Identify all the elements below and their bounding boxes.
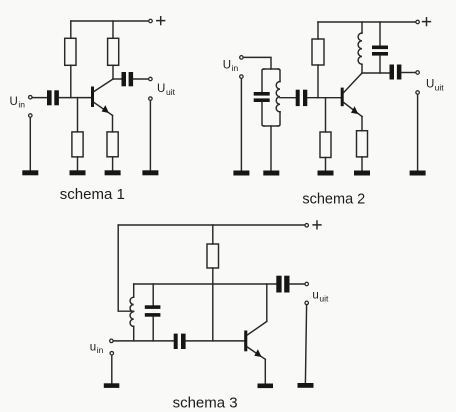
wire input terminal to C1 [33, 97, 48, 99]
wire C7 to base wire [152, 317, 154, 341]
label Uuit schema 1 [157, 83, 176, 97]
svg-text:u: u [312, 290, 318, 302]
label Uuit schema 2 [426, 79, 444, 93]
ground (schema 1 R4) [105, 170, 121, 175]
transistor Q2 collector lead [344, 73, 362, 93]
transistor Q3 emitter lead [247, 347, 265, 359]
svg-text:schema 3: schema 3 [173, 395, 238, 412]
wire R5 to base wire [317, 65, 319, 98]
wire rail to C4 [379, 22, 381, 46]
transistor Q1 base bar [91, 87, 94, 108]
wire output terminal to ground [149, 101, 151, 171]
svg-text:U: U [157, 83, 165, 95]
wire: supply rail schema 3 [118, 224, 304, 226]
capacitor C1 [47, 90, 59, 105]
wire L2 to collector node [361, 64, 363, 73]
ground (schema 3 emitter) [258, 384, 274, 389]
svg-text:U: U [10, 96, 18, 108]
wire rail to coil tap [118, 225, 134, 311]
wire C2 to output terminal [133, 78, 148, 80]
wire rail to R5 [317, 22, 319, 39]
terminal uuit schema 3 [305, 282, 309, 286]
transistor Q1 emitter lead [94, 103, 113, 116]
wire collector node horizontal schema 3 [134, 283, 277, 285]
transistor Q1 collector lead [94, 79, 113, 92]
wire: supply rail schema 1 [71, 20, 149, 22]
transistor Q2 emitter arrow [351, 106, 358, 114]
resistor R1 [65, 38, 76, 65]
svg-text:in: in [97, 345, 104, 355]
wire R4 to ground [112, 157, 114, 171]
svg-text:schema 1: schema 1 [60, 186, 125, 203]
resistor R8 [207, 244, 219, 268]
terminal Uin lower schema 2 [240, 75, 244, 79]
ground (schema 1 input) [22, 170, 38, 175]
wire lower input terminal to ground [29, 118, 31, 171]
inductor L2 [358, 33, 362, 64]
svg-text:schema 2: schema 2 [302, 192, 365, 208]
terminal Uin schema 2 [240, 56, 244, 60]
wire base node to R6 [325, 98, 327, 132]
wire lower input terminal to ground [240, 79, 242, 171]
svg-text:uit: uit [166, 87, 176, 97]
tank outline top schema 2 [264, 68, 278, 70]
transistor Q3 emitter arrow [254, 349, 261, 357]
ground (schema 3 input) [104, 383, 120, 388]
resistor R3 [72, 132, 83, 157]
wire C6 to output terminal [401, 72, 415, 74]
terminal Uuit lower schema 1 [149, 97, 153, 101]
ground (schema 2 R7) [354, 171, 370, 176]
terminal uuit lower schema 3 [305, 301, 309, 305]
transistor Q2 base bar [341, 88, 344, 107]
wire input terminal to tank [244, 57, 272, 69]
svg-text:in: in [18, 100, 25, 110]
wire emitter to R7 [361, 117, 363, 131]
ground (schema 1 R3) [70, 170, 86, 175]
svg-text:uit: uit [435, 83, 445, 93]
capacitor C9 [276, 276, 289, 293]
wire tank tap to C5 [280, 97, 296, 99]
wire emitter to ground [264, 359, 266, 383]
resistor R7 [357, 131, 368, 157]
wire collector node horizontal [362, 72, 390, 74]
capacitor C5 [296, 90, 308, 106]
wire C4 to collector node [379, 56, 381, 73]
wire tank bottom to ground [270, 126, 272, 171]
terminal Uuit lower schema 2 [416, 91, 420, 95]
inductor L1 top leg [278, 69, 280, 82]
svg-text:U: U [426, 79, 434, 91]
label uuit schema 3 [312, 290, 329, 304]
inductor L3 [130, 297, 134, 326]
wire L3 to base wire [133, 326, 135, 341]
label Uin schema 2 [223, 59, 239, 73]
wire R2 top [112, 21, 114, 38]
wire rail to R8 [212, 225, 214, 244]
capacitor C6 [390, 65, 402, 80]
terminal uin schema 3 [110, 339, 114, 343]
terminal uin lower schema 3 [110, 351, 114, 355]
terminal Uuit schema 1 [149, 77, 153, 81]
label + schema 3 [313, 221, 321, 229]
wire: supply rail schema 2 [318, 21, 416, 23]
wire C5 to base [307, 97, 340, 99]
terminal + schema 1 [149, 19, 153, 23]
inductor L1 coil [276, 82, 280, 112]
terminal + schema 2 [416, 20, 420, 24]
wire R7 to ground [361, 157, 363, 171]
terminal + schema 3 [305, 224, 309, 228]
wire R6 to ground [325, 158, 327, 171]
capacitor C4 plates [372, 46, 388, 56]
svg-text:u: u [90, 341, 96, 353]
wire lower output terminal to ground [417, 95, 419, 171]
resistor R5 [312, 39, 324, 65]
label Uin schema 1 [10, 96, 26, 110]
wire R2 to collector node [112, 65, 114, 79]
wire emitter to R4 [112, 115, 114, 131]
label uin schema 3 [90, 341, 104, 355]
capacitor C7 plates [145, 305, 161, 316]
ground (schema 3 output) [298, 383, 314, 388]
ground (schema 1 output) [142, 170, 158, 175]
wire rail to L2 [361, 22, 363, 33]
wire input terminal along base [114, 340, 174, 342]
terminal Uin lower schema 1 [29, 114, 33, 118]
svg-text:U: U [223, 59, 231, 71]
transistor Q3 collector lead [247, 321, 266, 335]
wire lower input terminal to ground [111, 355, 113, 383]
tank outline bottom schema 2 [264, 125, 278, 127]
resistor R2 [108, 38, 119, 65]
inductor L1 bottom leg [278, 112, 280, 126]
wire collector node to C7 [152, 284, 154, 305]
wire collector node to C2 [113, 78, 122, 80]
wire lower output terminal to ground [305, 305, 306, 383]
label + schema 1 [157, 17, 165, 25]
terminal Uuit schema 2 [416, 71, 420, 75]
svg-text:uit: uit [319, 294, 329, 304]
wire R8 to base wire [212, 268, 214, 341]
wire R1 to base node [70, 65, 72, 97]
wire R3 to ground [77, 157, 79, 170]
wire collector to node schema 3 [266, 284, 268, 321]
wire base node to R3 [77, 98, 79, 132]
transistor Q1 emitter arrow [102, 105, 109, 113]
wire C1 to base [59, 97, 91, 99]
ground (schema 2 R6) [318, 171, 334, 176]
terminal Uin schema 1 [29, 95, 33, 99]
capacitor C3 left leg bottom [262, 102, 264, 126]
wire C9 to output terminal [290, 283, 305, 285]
ground (schema 2 input) [233, 171, 249, 176]
label + schema 2 [423, 18, 431, 26]
capacitor C3 plates [254, 92, 270, 102]
capacitor C3 left leg top [262, 69, 264, 92]
ground (schema 2 output) [410, 171, 426, 176]
capacitor C2 [122, 72, 134, 86]
wire collector node to L3 [133, 284, 135, 297]
wire C8 to base [186, 340, 245, 342]
transistor Q3 base bar [244, 331, 247, 352]
transistor Q2 emitter lead [344, 103, 362, 117]
capacitor C8 [174, 334, 186, 349]
svg-text:in: in [232, 63, 239, 73]
resistor R6 [320, 132, 331, 158]
wire R1 top [70, 21, 72, 38]
resistor R4 [107, 132, 118, 157]
ground (schema 2 tank) [263, 171, 279, 176]
